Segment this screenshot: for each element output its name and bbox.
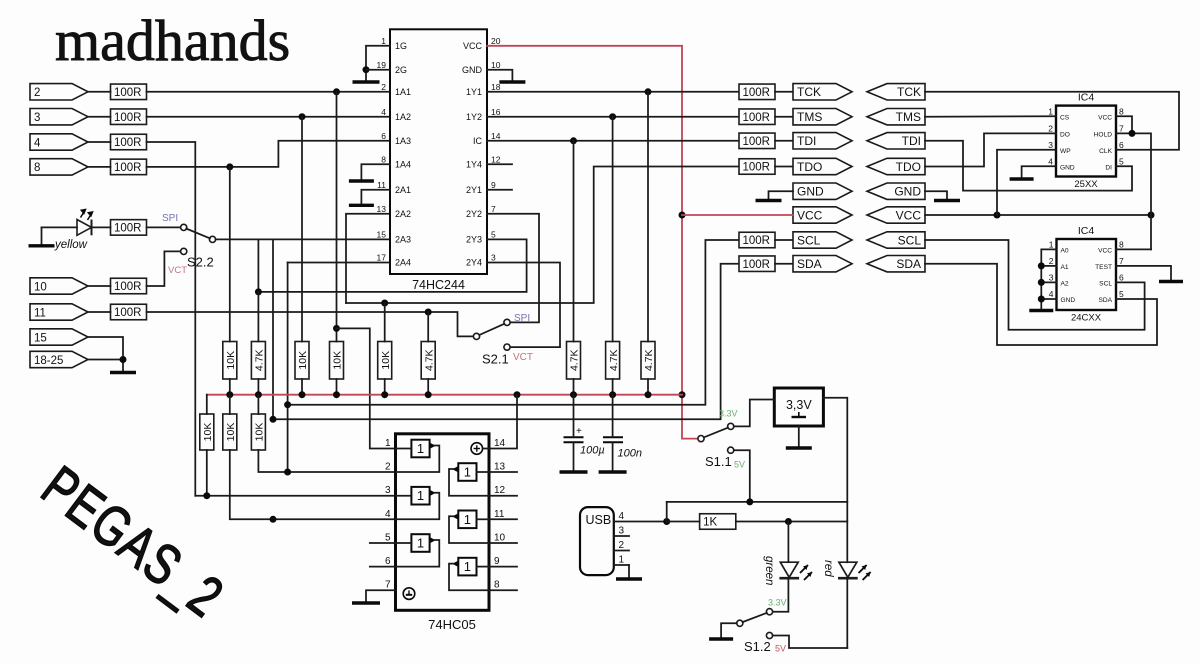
wire pin4 net down to 74HC05 pin3 row xyxy=(147,142,196,496)
svg-text:3.3V: 3.3V xyxy=(719,409,738,419)
svg-text:4: 4 xyxy=(385,509,391,520)
switch S2.1 common contact xyxy=(473,333,479,339)
wire 2A4 down to SCL line xyxy=(287,263,289,473)
ground (right GND arrow) xyxy=(934,199,960,202)
junction 2Y3 line / 4.7K / S2.2 xyxy=(255,288,262,295)
svg-text:+: + xyxy=(576,426,582,437)
resistor 4.7K (pin11 line pull-up) xyxy=(421,342,435,380)
IC4 25XX body xyxy=(1056,106,1116,177)
junction VCC rail / 4.7K/100n cap xyxy=(609,391,616,398)
svg-text:100R: 100R xyxy=(114,112,142,124)
switch S2.1 SPI contact xyxy=(504,319,510,325)
svg-text:100R: 100R xyxy=(114,137,142,149)
wire SDA arrow to 24CXX SDA xyxy=(925,264,1157,345)
svg-text:4: 4 xyxy=(381,107,386,117)
wire 100R to TDI arrow xyxy=(775,140,793,142)
wire S1.2 5V contact to red LED xyxy=(773,636,848,649)
wire 10K bottom to 74HC05 pin2 row xyxy=(258,450,395,472)
svg-text:4.7K: 4.7K xyxy=(608,349,620,371)
junction pin8 net / 10K pull-up xyxy=(226,163,233,170)
svg-text:4: 4 xyxy=(1049,289,1054,299)
stub 74HC05 pin12 xyxy=(489,495,517,497)
svg-text:green: green xyxy=(763,556,775,585)
junction VCC rail / 10K xyxy=(299,391,306,398)
junction VCC rail / 4.7K xyxy=(645,391,652,398)
capacitor 100n xyxy=(603,437,623,442)
svg-text:1: 1 xyxy=(1049,239,1054,249)
wire 2A3 down to SDA line xyxy=(272,239,274,419)
ground (pins 15,18-25) xyxy=(110,371,136,374)
svg-text:19: 19 xyxy=(377,60,387,70)
svg-text:2Y4: 2Y4 xyxy=(466,258,482,268)
svg-text:1: 1 xyxy=(464,512,471,527)
resistor 10K (SDA net pull-up) xyxy=(223,414,237,450)
wire pin15 to pin18-25 junction xyxy=(88,337,123,360)
svg-text:IC4: IC4 xyxy=(1078,92,1095,104)
wire 24CXX GND xyxy=(1041,298,1056,300)
junction TCK / 4.7K pull-up xyxy=(645,88,652,95)
svg-text:100n: 100n xyxy=(618,448,642,460)
switch S1.2 arm xyxy=(743,613,767,622)
svg-text:2: 2 xyxy=(385,462,391,473)
svg-text:3: 3 xyxy=(619,526,625,537)
svg-text:10K: 10K xyxy=(225,423,237,442)
resistor 100R (pin 10 line) xyxy=(111,278,147,294)
stub 74HC05 pin8 xyxy=(489,589,517,591)
svg-text:11: 11 xyxy=(494,509,505,520)
switch S1.1 arm xyxy=(704,428,728,438)
svg-text:DO: DO xyxy=(1060,131,1070,138)
connector pin 2 arrow xyxy=(30,84,88,100)
svg-text:1A3: 1A3 xyxy=(395,136,411,146)
wire 100R to TDO arrow xyxy=(775,166,793,168)
signal arrow TMS (in) xyxy=(867,109,925,125)
wire regulator output to red LED xyxy=(823,398,847,562)
svg-text:3: 3 xyxy=(34,112,40,124)
resistor 100R (TDI) xyxy=(739,133,775,149)
svg-text:11: 11 xyxy=(377,180,386,190)
74HC05 inverter gate 1 xyxy=(396,440,440,472)
switch S2.2 VCT contact xyxy=(181,248,187,254)
junction VCC net / pull-up rail xyxy=(679,391,686,398)
switch S1.2 3.3V contact xyxy=(766,609,772,615)
svg-text:1K: 1K xyxy=(703,517,717,529)
74HC05 VCC symbol (pin 14) xyxy=(471,443,483,455)
svg-text:8: 8 xyxy=(34,162,40,174)
wire 2Y3 line to S2.2 branch xyxy=(258,239,526,292)
connector pin 3 arrow xyxy=(30,109,88,125)
wire pin11 line to S2.1 common xyxy=(147,312,474,336)
wire pin2 net to 74HC05 pin1 xyxy=(337,328,396,448)
junction pin11 line / 4.7K pull-up xyxy=(425,309,432,316)
svg-text:HOLD: HOLD xyxy=(1094,131,1113,138)
svg-text:IC: IC xyxy=(473,136,483,146)
svg-text:S1.2: S1.2 xyxy=(744,639,771,654)
svg-text:TDO: TDO xyxy=(797,160,822,174)
svg-text:24CXX: 24CXX xyxy=(1071,313,1102,324)
wire 1Y3(IC) to TDI 100R xyxy=(487,140,739,142)
wire 5V feed to USB pin4 junction xyxy=(666,502,668,522)
svg-text:TDO: TDO xyxy=(896,160,921,174)
svg-text:8: 8 xyxy=(494,580,500,591)
wire 4.7K bottom to VCC rail xyxy=(427,379,429,395)
svg-text:1: 1 xyxy=(464,559,471,574)
resistor 100R (pin 4 line) xyxy=(111,134,147,150)
svg-text:4.7K: 4.7K xyxy=(643,349,655,371)
svg-text:1: 1 xyxy=(381,36,386,46)
wire ground to yellow LED xyxy=(42,226,78,228)
svg-text:2: 2 xyxy=(381,82,386,92)
junction TDI / 4.7K pull-up xyxy=(570,137,577,144)
svg-text:VCC: VCC xyxy=(896,208,922,222)
svg-text:1A4: 1A4 xyxy=(395,159,411,169)
wire 24CXX A0/A1/A2/GND tie xyxy=(1041,249,1056,309)
wire 100R to SDA arrow xyxy=(775,263,793,265)
wire 100n top to VCC rail xyxy=(612,395,614,438)
connector pin 4 arrow xyxy=(30,134,88,150)
USB connector xyxy=(580,507,614,575)
wire pin8 arrow to 100R xyxy=(88,166,111,168)
wire 25XX HOLD to VCC supply xyxy=(1116,133,1151,249)
wire 1Y1 to TCK 100R xyxy=(487,91,739,93)
svg-text:2A3: 2A3 xyxy=(395,235,411,245)
junction A1 tie xyxy=(1038,262,1045,269)
svg-text:A2: A2 xyxy=(1061,280,1069,287)
signal arrow GND (out) xyxy=(793,183,852,199)
wire red LED cathode down xyxy=(846,578,848,648)
svg-text:12: 12 xyxy=(491,154,501,164)
svg-text:3,3V: 3,3V xyxy=(786,398,812,412)
wire 74HC05 pin7 to ground xyxy=(366,590,396,601)
svg-text:4.7K: 4.7K xyxy=(254,349,266,371)
svg-text:madhands: madhands xyxy=(55,8,290,73)
junction SCL line / 2A4 vertical xyxy=(284,401,291,408)
svg-text:14: 14 xyxy=(494,438,506,449)
wire VCC red to VCC arrow xyxy=(682,214,793,216)
wire 74HC05 pin14 to VCC rail xyxy=(483,395,517,449)
junction pin4 net / 10K pull-up xyxy=(203,492,210,499)
svg-text:GND: GND xyxy=(797,185,824,199)
wire S2.2 line down to 2Y3 line xyxy=(257,239,259,292)
capacitor 100u electrolytic xyxy=(564,426,584,442)
svg-text:1: 1 xyxy=(1048,106,1053,116)
svg-text:GND: GND xyxy=(894,185,921,199)
svg-text:4.7K: 4.7K xyxy=(569,349,581,371)
svg-text:3.3V: 3.3V xyxy=(768,598,787,608)
junction SCL row / 2A4 vertical xyxy=(284,469,291,476)
junction VCC rail / 10K xyxy=(381,391,388,398)
svg-text:13: 13 xyxy=(494,462,506,473)
svg-text:10K: 10K xyxy=(202,423,214,442)
svg-text:14: 14 xyxy=(491,131,501,141)
svg-text:10: 10 xyxy=(491,60,501,70)
svg-text:5: 5 xyxy=(491,230,496,240)
svg-text:GND: GND xyxy=(462,65,483,75)
wire 4.7K bottom to VCC rail xyxy=(647,379,649,395)
svg-text:2A4: 2A4 xyxy=(395,258,411,268)
svg-text:1A1: 1A1 xyxy=(395,87,411,97)
svg-text:2Y2: 2Y2 xyxy=(466,209,482,219)
wire 2Y2 to S2.1 SPI contact xyxy=(487,214,539,323)
junction pins 15/18-25 xyxy=(120,356,127,363)
stub 2Y1 xyxy=(487,189,512,191)
stub 74HC05 pin10 xyxy=(489,542,517,544)
junction TDO line / 10K pull-up xyxy=(381,300,388,307)
wire TDI arrow to 25XX DI xyxy=(925,141,1132,191)
svg-text:1Y2: 1Y2 xyxy=(466,112,482,122)
74HC05 inverter gate 4 xyxy=(449,463,489,496)
voltage regulator 3.3V xyxy=(774,388,823,426)
wire 1Y2 to TMS 100R xyxy=(487,116,739,118)
ground (regulator) xyxy=(786,446,812,449)
wire 1A4 to ground xyxy=(361,164,390,179)
resistor 100R (yellow LED) xyxy=(111,220,147,236)
resistor 4.7K (2Y3/S2.2 pull-up) xyxy=(251,342,265,380)
svg-text:4: 4 xyxy=(1048,156,1053,166)
junction SDA line / 2A3 vertical xyxy=(270,416,277,423)
resistor 100R (pin 8 line) xyxy=(111,159,147,175)
wire 4.7K bottom to VCC rail xyxy=(612,379,614,395)
svg-text:100µ: 100µ xyxy=(580,445,605,457)
wire VCC rail (red) xyxy=(207,394,682,396)
svg-text:VCT: VCT xyxy=(513,352,533,363)
stub 74HC05 pin5 xyxy=(370,542,396,544)
svg-text:1G: 1G xyxy=(395,41,407,51)
wire pin4 arrow to 100R xyxy=(88,141,111,143)
wire regulator ground stem xyxy=(798,426,800,447)
IC 74HC244 body xyxy=(390,29,487,274)
wire 5V to 1K xyxy=(667,521,700,523)
svg-text:TMS: TMS xyxy=(797,110,822,124)
wire green LED cathode to S1.2 3.3V contact xyxy=(773,578,789,612)
signal arrow TDI (in) xyxy=(867,133,925,149)
svg-text:5: 5 xyxy=(1119,156,1124,166)
signal arrow TDO (in) xyxy=(867,158,925,174)
svg-text:100R: 100R xyxy=(743,136,771,148)
wire pin3 net to 1A2 xyxy=(147,116,391,118)
stub 74HC05 pin9 xyxy=(489,566,517,568)
red LED xyxy=(838,562,871,580)
svg-text:4: 4 xyxy=(619,511,625,522)
svg-text:25XX: 25XX xyxy=(1074,179,1098,190)
svg-text:6: 6 xyxy=(1119,272,1124,282)
wire pin4 net to 74HC05 pin3 xyxy=(195,495,395,497)
svg-text:TEST: TEST xyxy=(1095,264,1112,271)
svg-text:TCK: TCK xyxy=(797,85,821,99)
wire pin10 arrow to 100R xyxy=(88,285,111,287)
wire TCK arrow to 25XX CLK xyxy=(925,92,1179,150)
wire 100R pin10 to S2.2 VCT contact xyxy=(147,251,181,286)
wire 10K bottom to VCC rail xyxy=(336,379,338,395)
svg-text:10K: 10K xyxy=(225,351,237,370)
wire S1.2 common to ground xyxy=(721,623,737,637)
svg-text:5V: 5V xyxy=(734,460,745,470)
signal arrow TCK (out) xyxy=(793,84,852,100)
svg-text:11: 11 xyxy=(34,307,46,319)
switch S1.2 5V contact xyxy=(766,632,772,638)
wire S1.1 5V contact down xyxy=(734,450,750,502)
ground (24CXX) xyxy=(1029,309,1053,312)
junction VCC rail / 4.7K/10K xyxy=(255,391,262,398)
resistor 10K (SCL net pull-up) xyxy=(251,414,265,450)
junction VCC net / VCC arrow row xyxy=(679,212,686,219)
signal arrow TDO (out) xyxy=(793,158,852,174)
signal arrow VCC (out) xyxy=(793,207,852,223)
wire LED rail to green LED anode xyxy=(787,522,789,563)
resistor 100R (SDA) xyxy=(739,256,775,272)
wire 10K top to VCC rail xyxy=(229,395,231,414)
yellow LED xyxy=(77,210,93,236)
wire TDO arrow to 25XX DO xyxy=(925,133,1056,166)
svg-text:red: red xyxy=(822,560,834,577)
wire 4.7K top (2Y3/S2.2 pull-up) xyxy=(257,292,259,342)
junction GND tie xyxy=(1038,296,1045,303)
wire 10K top (pin3 net pull-up) xyxy=(301,117,303,342)
wire 4.7K top (TMS pull-up) xyxy=(612,117,614,342)
stub 74HC05 pin11 xyxy=(489,518,517,520)
svg-text:S2.1: S2.1 xyxy=(482,352,509,367)
resistor 100R (TCK) xyxy=(739,84,775,100)
svg-text:10K: 10K xyxy=(297,351,309,370)
svg-text:VCC: VCC xyxy=(1098,247,1112,254)
svg-text:100R: 100R xyxy=(114,223,142,235)
resistor 100R (TMS) xyxy=(739,109,775,125)
signal arrow TCK (in) xyxy=(867,84,925,100)
svg-text:15: 15 xyxy=(34,332,47,344)
junction pin3 net / 10K pull-up xyxy=(299,113,306,120)
wire 10K top (pin8 net pull-up) xyxy=(229,167,231,342)
svg-text:SDA: SDA xyxy=(797,257,822,271)
resistor 4.7K (TMS pull-up) xyxy=(606,342,620,380)
wire 24CXX VCC to supply xyxy=(1116,248,1151,250)
svg-text:74HC05: 74HC05 xyxy=(428,617,476,632)
wire 10K bottom to VCC rail xyxy=(384,379,386,395)
wire 4.7K top (TDI pull-up) xyxy=(573,141,575,342)
svg-text:9: 9 xyxy=(491,180,496,190)
svg-text:100R: 100R xyxy=(114,162,142,174)
svg-text:8: 8 xyxy=(1119,106,1124,116)
wire pin2 arrow to 100R xyxy=(88,91,111,93)
svg-text:10K: 10K xyxy=(380,351,392,370)
ground (left GND arrow) xyxy=(756,199,782,202)
svg-text:7: 7 xyxy=(385,580,391,591)
switch S2.2 SPI contact xyxy=(181,224,187,230)
svg-text:100R: 100R xyxy=(114,281,142,293)
wire 24CXX TEST to ground xyxy=(1116,266,1171,280)
signal arrow SCL (in) xyxy=(867,232,925,248)
junction 1G-2G xyxy=(363,66,370,73)
wire 25XX WP to VCC xyxy=(997,150,1056,215)
stub 1Y4 xyxy=(487,163,512,165)
switch S1.1 5V contact xyxy=(728,447,734,453)
junction SDA row / 2A3 vertical xyxy=(270,516,277,523)
svg-text:2: 2 xyxy=(1048,123,1053,133)
svg-text:TDI: TDI xyxy=(797,134,816,148)
wire yellow LED ground stem xyxy=(41,227,43,244)
svg-text:10: 10 xyxy=(494,533,506,544)
svg-text:VCT: VCT xyxy=(168,265,187,276)
junction VCC rail / 4.7K/100u cap xyxy=(570,391,577,398)
wire SDA line to 100R xyxy=(273,264,739,420)
svg-text:TDI: TDI xyxy=(902,134,921,148)
signal arrow SDA (in) xyxy=(867,256,925,272)
svg-text:5: 5 xyxy=(385,533,391,544)
svg-text:10: 10 xyxy=(34,281,47,293)
svg-text:18-25: 18-25 xyxy=(34,355,63,367)
svg-text:7: 7 xyxy=(1119,123,1124,133)
wire 100R to SCL arrow xyxy=(775,239,793,241)
signal arrow TMS (out) xyxy=(793,109,852,125)
wire 100R to TCK arrow xyxy=(775,91,793,93)
svg-text:100R: 100R xyxy=(743,162,771,174)
wire pin3 arrow to 100R xyxy=(88,116,111,118)
connector pins 18-25 arrow xyxy=(30,351,88,367)
junction TMS / 4.7K pull-up xyxy=(609,113,616,120)
resistor 1K (LED series) xyxy=(700,514,736,530)
wire SCL line to 100R xyxy=(288,240,739,405)
wire 4.7K top (TCK pull-up) xyxy=(647,92,649,342)
svg-text:2A2: 2A2 xyxy=(395,209,411,219)
svg-text:SPI: SPI xyxy=(162,213,178,224)
switch S2.2 common contact xyxy=(209,236,215,242)
ground (2A1) xyxy=(349,204,374,207)
wire pin2 net to 1A1 xyxy=(147,91,391,93)
svg-text:1: 1 xyxy=(417,441,424,456)
ground (S1.2) xyxy=(709,637,733,640)
signal arrow TDI (out) xyxy=(793,133,852,149)
wire 4.7K bottom to VCC rail xyxy=(257,379,259,395)
junction VCC rail / 74HC05 VCC xyxy=(514,391,521,398)
svg-text:5V: 5V xyxy=(775,644,786,654)
svg-text:4: 4 xyxy=(34,137,41,149)
wire yellow LED to 100R xyxy=(92,226,111,228)
wire 100u bottom to ground xyxy=(573,442,575,470)
svg-text:8: 8 xyxy=(381,154,386,164)
svg-text:12: 12 xyxy=(494,485,506,496)
wire SCL arrow to 24CXX SCL xyxy=(925,240,1145,330)
wire pin8 net to 1A3 xyxy=(147,141,391,167)
svg-text:100R: 100R xyxy=(743,235,771,247)
ground (24CXX TEST) xyxy=(1159,280,1183,283)
junction VCC/HOLD xyxy=(1129,130,1136,137)
IC4 24CXX body xyxy=(1057,239,1117,310)
wire right GND arrow to ground xyxy=(925,191,947,199)
wire 24CXX A1 xyxy=(1041,265,1056,267)
svg-text:100R: 100R xyxy=(743,112,771,124)
wire left GND arrow to ground xyxy=(769,191,794,199)
ground (yellow LED) xyxy=(29,244,55,247)
green LED xyxy=(779,562,812,580)
svg-text:10K: 10K xyxy=(332,351,344,370)
svg-text:SDA: SDA xyxy=(1098,297,1112,304)
svg-text:GND: GND xyxy=(1060,164,1075,171)
ground (USB pin1) xyxy=(616,577,642,580)
wire 1K to LED rail xyxy=(736,521,848,523)
74HC05 inverter gate 6 xyxy=(449,558,489,590)
wire 10K bottom to VCC rail xyxy=(301,379,303,395)
svg-text:3: 3 xyxy=(1048,140,1053,150)
wire 4.7K top (pin11 line pull-up) xyxy=(427,312,429,342)
resistor 10K (pin2 net pull-up) xyxy=(330,342,344,380)
ground (100n) xyxy=(599,470,627,473)
svg-text:1: 1 xyxy=(385,438,391,449)
stub 74HC05 pin6 xyxy=(370,566,396,568)
74HC05 GND symbol (pin 7) xyxy=(403,588,415,600)
wire 10K top to VCC rail xyxy=(206,395,208,414)
ground (74HC05 pin7) xyxy=(352,601,380,604)
svg-text:2Y3: 2Y3 xyxy=(466,235,482,245)
svg-text:16: 16 xyxy=(491,107,501,117)
